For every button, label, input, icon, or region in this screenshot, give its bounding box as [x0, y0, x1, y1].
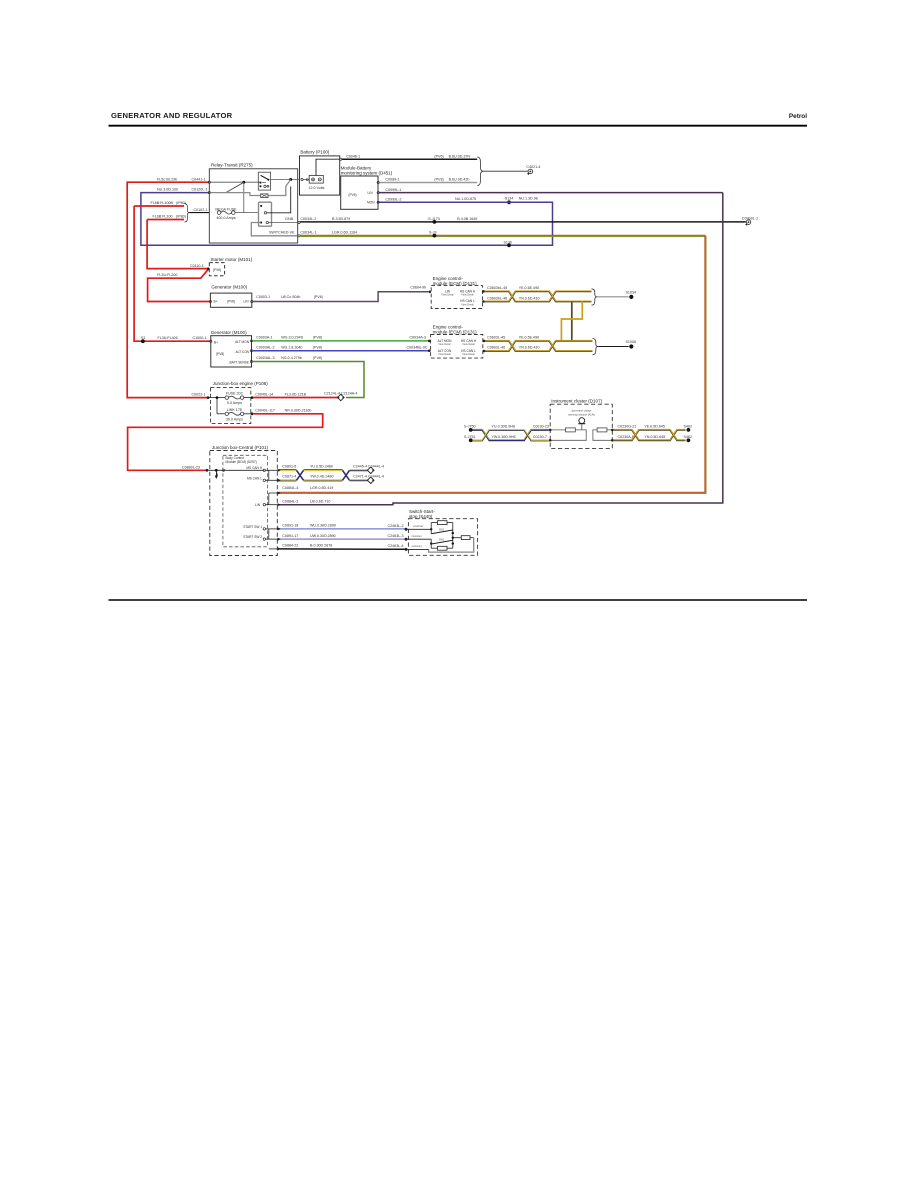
svg-text:Generator (M100): Generator (M100): [211, 284, 247, 289]
svg-text:C0603bL-45: C0603bL-45: [487, 286, 507, 290]
wire to mega fuse C0102-1: [190, 212, 210, 214]
junction dot on C0441 line: [242, 181, 245, 184]
BCM edge connectors: [278, 469, 281, 551]
splice node S1034: [629, 295, 633, 299]
svg-text:C0003A-1: C0003A-1: [256, 336, 272, 340]
svg-text:customer: customer: [412, 535, 422, 538]
svg-text:U8.0.6D.710: U8.0.6D.710: [310, 500, 330, 504]
SWITCHED-VE internal path: [251, 223, 297, 236]
svg-text:(PV8): (PV8): [314, 295, 323, 299]
wire FL6B:FL100B red stub: [134, 205, 184, 207]
svg-text:FL3.0D.121B: FL3.0D.121B: [285, 392, 307, 396]
svg-text:C0891-17: C0891-17: [282, 534, 298, 538]
battery terminals: [309, 176, 323, 184]
wire LIN vertical far right dark plum: [393, 193, 723, 505]
switch blade to coil rail: [226, 182, 244, 192]
svg-text:FUSE 20C: FUSE 20C: [226, 392, 244, 396]
contact blade inside: [261, 175, 269, 179]
svg-text:NU.1.3D.98: NU.1.3D.98: [519, 197, 538, 201]
wire FL3.0D.121B red fuse output to C2124: [253, 397, 337, 399]
svg-text:S462: S462: [684, 435, 693, 439]
wire WG.3.0.294S ALT MON green: [253, 340, 429, 342]
junction S134 on MON wire: [507, 200, 511, 204]
row 3 internal: [408, 538, 432, 540]
svg-text:C0884-22: C0884-22: [282, 544, 298, 548]
wire C0089-1 grey to brace: [379, 182, 477, 184]
svg-text:-S134: -S134: [504, 197, 514, 201]
svg-text:C0046-1: C0046-1: [346, 154, 360, 158]
wire to splice S1006: [598, 346, 628, 348]
svg-text:WU.0.30D.2890: WU.0.30D.2890: [310, 524, 336, 528]
right blade and drop to coil row: [268, 180, 291, 196]
svg-text:SWITCHED-VE: SWITCHED-VE: [269, 231, 295, 235]
fuse output to lower switch box: [235, 212, 258, 214]
svg-text:Relay-Transit (R275): Relay-Transit (R275): [211, 163, 253, 168]
svg-text:B.3.5D.879: B.3.5D.879: [332, 217, 350, 221]
junction S1: [141, 339, 145, 343]
svg-text:View Detail: View Detail: [461, 294, 474, 297]
svg-text:C0034L-2: C0034L-2: [300, 217, 316, 221]
svg-text:LGR.0.5D.419: LGR.0.5D.419: [310, 486, 333, 490]
fusible link LINK 17E 30.0 Amps: [225, 408, 244, 421]
svg-text:C0049L-117: C0049L-117: [255, 409, 275, 413]
svg-text:FL6B:FL100: FL6B:FL100: [153, 215, 173, 219]
svg-text:View Detail: View Detail: [438, 353, 451, 356]
svg-text:(PV8): (PV8): [213, 268, 221, 272]
svg-text:YU.0.5D.2480: YU.0.5D.2480: [310, 464, 333, 468]
svg-text:SW1: SW1: [439, 529, 445, 532]
module D451 battery monitoring box: [341, 166, 393, 210]
mega fuse symbol 400.0 Amps: [215, 207, 237, 219]
svg-text:C0230-23: C0230-23: [533, 425, 549, 429]
BCM D297 inner box: [223, 455, 268, 547]
svg-text:C2471-4 C2444L-4: C2471-4 C2444L-4: [353, 475, 384, 479]
svg-text:S1034: S1034: [626, 291, 637, 295]
coil feed from C0120L-1: [208, 192, 210, 194]
svg-text:NU.1.0D.875: NU.1.0D.875: [455, 197, 476, 201]
wire UW.0.30D.2890 START SW 2 light violet: [278, 538, 404, 540]
wire NR.0.30D.2116b red link output wrap to BCM: [128, 414, 323, 471]
GNB output line: [269, 222, 298, 224]
P108 internal feed: [210, 397, 226, 399]
svg-text:S1006: S1006: [626, 340, 637, 344]
svg-text:Module (BCM) (D297): Module (BCM) (D297): [226, 460, 257, 464]
svg-text:C0034BL-9C: C0034BL-9C: [407, 345, 428, 349]
svg-text:START SW 1: START SW 1: [243, 525, 262, 529]
fuse FUSE 20C 5.0 Amps: [225, 392, 244, 406]
wire red FL100B vertical to S1 and generator2: [134, 206, 210, 341]
svg-text:ALT CON: ALT CON: [235, 350, 249, 354]
svg-text:C0230A-5: C0230A-5: [618, 435, 634, 439]
svg-text:C0884L-4: C0884L-4: [282, 486, 298, 490]
resistor right: [453, 537, 462, 539]
svg-text:C4021-4: C4021-4: [526, 165, 540, 169]
svg-text:warning indicator (A14)): warning indicator (A14)): [568, 413, 595, 416]
svg-text:NG.0.4.279b: NG.0.4.279b: [281, 356, 302, 360]
svg-text:B.0.30D.2878: B.0.30D.2878: [310, 544, 332, 548]
svg-text:(IP80): (IP80): [176, 201, 186, 205]
cluster right pins: [611, 429, 614, 432]
junction S13b on violet lower wire: [507, 243, 511, 247]
wire C0034L-2 GNB black long: [298, 221, 300, 223]
svg-text:(generator charge: (generator charge: [572, 410, 592, 413]
junction S-J3: [433, 234, 437, 238]
switched output line to battery: [271, 179, 300, 181]
svg-text:C0604-9b: C0604-9b: [410, 286, 426, 290]
P108 entry connector C0022-1: [207, 396, 210, 399]
svg-text:S-J751: S-J751: [464, 435, 476, 439]
svg-text:(PV8): (PV8): [313, 336, 322, 340]
svg-text:S-J750: S-J750: [464, 425, 476, 429]
brace ECM2 pair: [593, 338, 599, 354]
svg-text:(PV6): (PV6): [348, 193, 356, 197]
relay lower switch box: [259, 202, 272, 226]
svg-text:View Detail: View Detail: [441, 294, 454, 297]
svg-text:NR.0.30D.2116b: NR.0.30D.2116b: [285, 409, 312, 413]
ECM2 pins: [428, 340, 431, 343]
wire FL6B:FL100 red stub: [147, 219, 184, 221]
gen2 pins: [210, 340, 212, 342]
svg-text:LIN: LIN: [244, 299, 250, 303]
svg-text:YW.0.30D.9H6: YW.0.30D.9H6: [492, 435, 516, 439]
wire to splice S1034: [597, 296, 628, 298]
starter pin C0110-1: [207, 267, 210, 270]
svg-text:S462: S462: [684, 425, 693, 429]
svg-text:START SW 2: START SW 2: [243, 535, 262, 539]
inline connector C2445-4 C2444L-4: [353, 464, 384, 473]
footer rule: [109, 599, 808, 601]
wire brace to C4021-4: [483, 170, 527, 172]
battery positive riser to C0046-1: [316, 159, 340, 175]
generator M100 (gen1) box: [210, 284, 251, 307]
ECM1 pins: [429, 291, 432, 294]
svg-text:YE.0.6E.490: YE.0.6E.490: [519, 286, 539, 290]
cluster internal right loop with resistor: [593, 430, 611, 440]
svg-text:C0230-7: C0230-7: [533, 435, 547, 439]
svg-text:(PV8): (PV8): [313, 345, 322, 349]
svg-text:B+: B+: [214, 340, 218, 344]
svg-text:C0603L-45: C0603L-45: [487, 336, 505, 340]
svg-text:C0230G-21: C0230G-21: [618, 425, 637, 429]
svg-text:UW.0.30D.2890: UW.0.30D.2890: [310, 534, 336, 538]
relay contact box: [258, 172, 270, 190]
splice S-J750: [469, 428, 473, 432]
svg-text:YE.0.5D.645: YE.0.5D.645: [644, 425, 665, 429]
svg-text:FL6B:FL100B: FL6B:FL100B: [151, 201, 174, 205]
svg-text:5.0 Amps: 5.0 Amps: [227, 401, 242, 405]
svg-text:-S-J173: -S-J173: [427, 217, 440, 221]
svg-text:(PV8): (PV8): [227, 299, 235, 303]
svg-text:YU.0.30D.9H6: YU.0.30D.9H6: [492, 425, 515, 429]
svg-text:LINK 17E: LINK 17E: [227, 408, 243, 412]
svg-text:C0999L-1: C0999L-1: [385, 188, 401, 192]
svg-text:C0003-1: C0003-1: [256, 295, 270, 299]
svg-text:C0102-1: C0102-1: [194, 208, 208, 212]
CAN link wire dark vertical: [571, 302, 573, 342]
svg-text:C0891-5: C0891-5: [282, 464, 296, 468]
svg-text:Battery (P100): Battery (P100): [300, 150, 330, 155]
svg-text:YN.0.6D.410: YN.0.6D.410: [519, 345, 540, 349]
svg-text:GENERATOR AND REGULATOR: GENERATOR AND REGULATOR: [111, 111, 233, 120]
wire B.6U.0D.37N battery to brace: [342, 158, 477, 160]
svg-text:B.4.0B.1645: B.4.0B.1645: [457, 217, 477, 221]
svg-text:C0603bL-46: C0603bL-46: [487, 296, 507, 300]
brace ECM1 pair: [592, 289, 598, 305]
svg-text:Starter motor (M101): Starter motor (M101): [210, 257, 252, 262]
svg-text:MS CAN L: MS CAN L: [247, 476, 262, 480]
connector C4021-4 ring terminal: [526, 165, 540, 175]
svg-text:SW1: SW1: [439, 539, 445, 542]
gen1 pins: [209, 300, 211, 302]
svg-text:S13b: S13b: [504, 240, 513, 244]
svg-text:B.6U.0D.42b: B.6U.0D.42b: [449, 177, 470, 181]
wire C0999L-1 LIN dark plum to far right vertical: [379, 192, 723, 194]
inline connector C2124L-4 C2124A-4: [324, 392, 357, 401]
P108 exit connectors: [251, 396, 254, 399]
svg-text:30.0 Amps: 30.0 Amps: [226, 417, 243, 421]
BCM pin START SW 1: [263, 528, 265, 530]
svg-text:WG.3.0.294S: WG.3.0.294S: [281, 336, 303, 340]
svg-text:YW.0.4D.2480: YW.0.4D.2480: [310, 475, 333, 479]
link from lower box up to switched node: [267, 187, 291, 213]
svg-text:12.0 Volts: 12.0 Volts: [309, 186, 325, 190]
wire B.0.30D.2878 black: [278, 548, 404, 550]
connector C0900L-1 ring terminal: [742, 217, 758, 226]
wire FL5c:00.29b red net: relay C0441-1 down-left to junction box C0022-1: [127, 182, 209, 397]
svg-text:Junction box-Central (P101): Junction box-Central (P101): [212, 445, 269, 450]
svg-text:module (ECM) (D131): module (ECM) (D131): [433, 281, 478, 286]
svg-text:C0441-1: C0441-1: [192, 177, 206, 181]
svg-text:Instrument cluster (D107): Instrument cluster (D107): [551, 399, 602, 404]
svg-text:FL3U:FL400: FL3U:FL400: [158, 336, 178, 340]
wire WU.0.30D.2890 START SW 1 light blue: [278, 528, 404, 530]
generator M100 (gen2) box: [211, 330, 252, 367]
svg-text:S-J3: S-J3: [429, 231, 437, 235]
svg-text:BATT SENSE: BATT SENSE: [229, 361, 249, 365]
svg-text:(PV8): (PV8): [434, 177, 443, 181]
svg-text:LIN: LIN: [368, 191, 374, 195]
svg-text:GNB: GNB: [285, 217, 293, 221]
junction S-J173: [433, 220, 437, 224]
svg-text:LGR.0.6D.1164: LGR.0.6D.1164: [332, 231, 357, 235]
svg-text:B+: B+: [214, 299, 218, 303]
BCM pin MS CAN H: [263, 469, 265, 471]
twisted pair cluster right YE.0.5D.645 / YN.0.5D.645: [614, 430, 686, 440]
svg-text:View Detail: View Detail: [461, 303, 474, 306]
wire NU.3.0D.100 violet net: relay C0120L-1 wrap to D451 MON: [141, 193, 553, 246]
svg-text:MS CAN H: MS CAN H: [246, 466, 262, 470]
P101 entry connector C0880L-23: [206, 469, 209, 472]
svg-text:YN.0.6D.410: YN.0.6D.410: [519, 296, 540, 300]
wire C0999L-2 MON violet to vertical: [379, 201, 552, 203]
svg-text:Junction-box engine (P108): Junction-box engine (P108): [213, 381, 269, 386]
svg-text:customer: customer: [412, 545, 422, 548]
svg-text:C0003AL-3: C0003AL-3: [256, 356, 274, 360]
wire NG.0.4.279b BATT SENSE olive-green down to C2124: [253, 362, 364, 398]
svg-text:C0880L-23: C0880L-23: [182, 465, 200, 469]
svg-text:C0884L-2: C0884L-2: [282, 500, 298, 504]
instrument cluster D107: [550, 399, 612, 449]
svg-text:C0891-18: C0891-18: [282, 524, 298, 528]
svg-text:S1: S1: [141, 336, 145, 340]
lamp symbol A14: [578, 418, 585, 424]
svg-text:C0089-1: C0089-1: [385, 177, 399, 181]
junction box central P101: [210, 445, 277, 556]
svg-text:400.0 Amps: 400.0 Amps: [216, 216, 235, 220]
svg-text:View Detail: View Detail: [438, 343, 451, 346]
ECM2 engine control module D131: [431, 325, 483, 359]
relay coil: [261, 194, 268, 198]
twisted pair MS CAN YU.0.5D.2480 / YW.0.4D.2480: [278, 470, 342, 480]
switch start-stop S440: [408, 509, 477, 555]
splice S-J751: [469, 438, 473, 442]
S440 internal circuit: [408, 528, 432, 530]
svg-text:C0999L-2: C0999L-2: [385, 197, 401, 201]
svg-text:C2463L-2: C2463L-2: [388, 524, 404, 528]
twisted pair cluster left YU.0.30D.9H6 / YW.0.30D.9H6: [473, 430, 549, 440]
grey return path: [429, 538, 474, 552]
svg-text:C0603L-46: C0603L-46: [487, 345, 505, 349]
wire red FL100 vertical to starter C0110-1: [147, 220, 207, 269]
svg-text:WU.1.8.304b: WU.1.8.304b: [281, 345, 302, 349]
svg-text:FL5c:00.29b: FL5c:00.29b: [157, 177, 177, 181]
svg-text:(PV8): (PV8): [216, 352, 224, 356]
wire FL3U:FL200 red: starter to generator1 B+: [148, 269, 210, 301]
svg-text:C2463L-4: C2463L-4: [388, 544, 404, 548]
svg-text:monitoring system (D451): monitoring system (D451): [341, 171, 393, 176]
header rule: [109, 125, 808, 127]
svg-text:C0003AL-2: C0003AL-2: [256, 345, 274, 349]
BCM feed line with junction: [208, 469, 264, 471]
wire U8.Co.504b gen1 LIN to ECM1 purple: [253, 292, 428, 302]
ECM1 engine control module D131: [431, 276, 482, 309]
svg-text:C2463L-3: C2463L-3: [388, 534, 404, 538]
svg-text:C0120L-1: C0120L-1: [192, 188, 208, 192]
svg-text:LIN: LIN: [255, 503, 261, 507]
svg-text:C0110-1: C0110-1: [190, 264, 204, 268]
cluster internal left loop with resistor: [552, 430, 587, 440]
svg-text:ALT MON: ALT MON: [235, 340, 250, 344]
svg-text:Generator (M100): Generator (M100): [211, 330, 247, 335]
junction box engine P108: [211, 381, 269, 424]
resistor upper: [438, 521, 448, 525]
inline connector C2471-4 C2444L-4: [353, 475, 384, 484]
battery left pin to relay: [301, 178, 303, 180]
relay R275 Relay-Transit box: [209, 163, 297, 243]
svg-text:C2445-4 C2444L-4: C2445-4 C2444L-4: [353, 464, 384, 468]
BCM pin START SW 2: [263, 538, 265, 540]
svg-text:View Detail: View Detail: [462, 353, 475, 356]
svg-text:MON: MON: [367, 201, 375, 205]
svg-text:C0049L-14: C0049L-14: [255, 392, 273, 396]
twisted pair ECM1 HS CAN YE.0.6E.490 / YN.0.6D.410: [485, 291, 592, 301]
S440 connectors: [405, 528, 408, 531]
svg-text:C0034A-3: C0034A-3: [410, 336, 426, 340]
BCM pin LIN: [263, 504, 265, 506]
wire WU.1.8.304b ALT CON blue: [253, 350, 429, 352]
BCM pin MS CAN L: [263, 479, 265, 481]
CAN link wire gold jog vertical: [561, 302, 582, 342]
mega fuse vertical link: [243, 183, 245, 213]
wire C0034L-1 SWITCHED-VE orange/green to BCM: [298, 235, 300, 237]
svg-text:Petrol: Petrol: [789, 113, 807, 120]
svg-text:C1000-1: C1000-1: [193, 336, 207, 340]
brace battery harness: [477, 157, 483, 186]
svg-text:FL3U:FL200: FL3U:FL200: [157, 273, 177, 277]
svg-text:NU.3.0D.100: NU.3.0D.100: [157, 188, 178, 192]
relay internal: input line from C0441-1: [208, 181, 210, 183]
starter motor M101: [209, 257, 252, 276]
svg-text:B.6U.0D.37N: B.6U.0D.37N: [449, 154, 471, 158]
splice node S1006: [629, 344, 633, 348]
svg-text:(IP80): (IP80): [176, 215, 186, 219]
svg-text:customer: customer: [413, 525, 423, 528]
svg-text:YE.0.5E.490: YE.0.5E.490: [519, 336, 539, 340]
battery P100 box: [300, 150, 340, 195]
svg-text:(PV6): (PV6): [434, 154, 443, 158]
svg-text:C0022-1: C0022-1: [192, 392, 206, 396]
contact pins: [260, 182, 262, 184]
svg-text:YN.0.5D.645: YN.0.5D.645: [644, 435, 665, 439]
svg-text:module (ECM) (D131): module (ECM) (D131): [433, 330, 478, 335]
svg-text:C0871-4: C0871-4: [282, 475, 296, 479]
wire U8.0.6D.710 LIN from BCM: [278, 504, 393, 506]
svg-text:U8.Co.504b: U8.Co.504b: [281, 295, 300, 299]
twisted pair ECM2 HS CAN YE.0.5E.490 / YN.0.6D.410: [485, 341, 593, 351]
cluster left pins: [549, 429, 552, 432]
resistor lower: [438, 546, 448, 550]
svg-text:(PV8): (PV8): [313, 356, 322, 360]
D451 pin circles: [377, 181, 379, 183]
svg-text:C0034L-1: C0034L-1: [300, 231, 316, 235]
svg-text:View Detail: View Detail: [462, 343, 475, 346]
splice S462 lower: [687, 438, 691, 442]
splice S462 upper: [687, 428, 691, 432]
brace joining FL100B/FL100: [185, 204, 190, 223]
